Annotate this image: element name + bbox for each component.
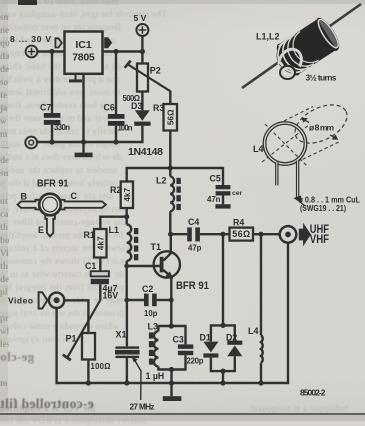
- transistor T1 BFR91: [154, 251, 180, 278]
- junction P1 bottom: [86, 380, 91, 385]
- junction D-block top: [220, 323, 225, 328]
- capacitor C3: [178, 325, 193, 371]
- wire C6 to ground rail: [115, 126, 117, 142]
- inductor L1: [127, 225, 139, 261]
- svg-text:X1: X1: [116, 330, 127, 340]
- svg-text:L2: L2: [156, 176, 167, 186]
- svg-text:C6: C6: [104, 103, 115, 113]
- wire video to P1: [64, 300, 88, 333]
- IC U1: IC1 7805 voltage regulator: [65, 32, 103, 74]
- terminal 5V: [136, 24, 148, 36]
- junction tank bottom: [169, 367, 174, 372]
- diode D2: [227, 324, 242, 372]
- capacitor C2: [127, 294, 172, 307]
- svg-text:C2: C2: [142, 284, 153, 294]
- junction D-block bottom rail: [220, 380, 225, 385]
- input arrow (open) video: [39, 292, 48, 308]
- wire rail corner down to R2: [125, 167, 127, 182]
- junction C6 ground: [113, 139, 118, 144]
- ground symbol upper: [75, 142, 93, 157]
- wire D-block feed: [222, 234, 224, 325]
- inductor L2: [170, 177, 180, 212]
- svg-text:L4: L4: [253, 144, 264, 154]
- svg-text:C5: C5: [210, 174, 221, 184]
- svg-text:E: E: [38, 225, 44, 235]
- svg-text:L4: L4: [248, 326, 259, 336]
- svg-text:8 ... 30 V: 8 ... 30 V: [10, 34, 51, 44]
- wire L2 bottom to collector node: [169, 211, 171, 234]
- dark rule near bottom of page: [0, 413, 365, 415]
- wire C7 to ground rail: [51, 125, 53, 142]
- wire D3 to ground rail corner: [141, 126, 143, 143]
- crystal X1: [115, 346, 140, 358]
- wire ground rail: [37, 141, 143, 143]
- wire R2 bottom to base node: [125, 208, 127, 225]
- resistor R3: [164, 104, 178, 131]
- wire C7 branch upper: [51, 52, 53, 114]
- junction collector/L2/C4: [168, 232, 173, 237]
- wire R4 to output terminal: [253, 233, 280, 235]
- svg-text:100n: 100n: [118, 124, 133, 133]
- junction X1 bottom: [124, 380, 129, 385]
- potentiometer P1 100R preset: [63, 300, 101, 360]
- wire video shield down: [55, 308, 57, 384]
- junction C7 ground: [49, 139, 54, 144]
- wire C1 down to P1 wiper: [99, 284, 101, 300]
- svg-text:D3: D3: [131, 101, 142, 111]
- left edge cut-off text column: [0, 0, 9, 421]
- terminal video input: [49, 293, 64, 308]
- wire D-block bottom rail: [211, 370, 235, 372]
- svg-text:Video: Video: [8, 296, 33, 306]
- svg-text:P1: P1: [66, 334, 77, 344]
- svg-text:56Ω: 56Ω: [232, 229, 250, 239]
- wire collector up: [170, 234, 172, 254]
- wire base node down to X1: [126, 300, 128, 346]
- svg-text:4k7: 4k7: [96, 236, 105, 250]
- inductor L3: [149, 325, 159, 371]
- input arrow (open) of IC1: [55, 38, 61, 47]
- junction C2 left: [124, 298, 129, 303]
- junction D-block bottom: [220, 369, 225, 374]
- resistor R2: [121, 182, 133, 209]
- junction C7 tap: [49, 49, 54, 54]
- svg-text:D2: D2: [226, 332, 237, 342]
- svg-text:16V: 16V: [103, 291, 119, 301]
- svg-text:5 V: 5 V: [134, 13, 147, 23]
- capacitor C5 decoupling: [215, 167, 230, 209]
- resistor R4: [230, 228, 254, 241]
- svg-text:220p: 220p: [187, 357, 204, 366]
- svg-text:cer: cer: [232, 190, 243, 197]
- wire X1 to bottom rail: [126, 358, 128, 383]
- output arrow (filled) of IC1: [105, 38, 112, 48]
- wire P1 to bottom rail: [87, 360, 89, 384]
- wire bottom rail: [56, 382, 290, 384]
- wire D-block top rail: [211, 324, 235, 326]
- svg-text:4k7: 4k7: [123, 188, 132, 202]
- terminal +8...30V input: [26, 46, 38, 58]
- junction 5V node: [140, 49, 145, 54]
- junction tank bottom rail: [169, 380, 174, 385]
- capacitor C4: [187, 227, 200, 241]
- capacitor C6: [108, 114, 125, 126]
- wire 5V terminal down to P2: [141, 36, 143, 64]
- svg-text:R1: R1: [84, 230, 95, 240]
- svg-text:BFR 91: BFR 91: [37, 178, 69, 190]
- wire emitter down: [170, 278, 172, 327]
- junction C6 tap: [113, 49, 118, 54]
- coil L1,L2 winding illustration: [242, 4, 361, 88]
- capacitor C7: [44, 113, 61, 125]
- junction L4 bottom: [258, 380, 263, 385]
- wire to R1: [100, 217, 126, 229]
- svg-text:56Ω: 56Ω: [166, 109, 175, 125]
- svg-text:330n: 330n: [54, 123, 70, 132]
- wire emitter node to tank: [169, 323, 174, 328]
- transistor BFR91 pinout drawing: [18, 194, 106, 237]
- svg-text:D1: D1: [200, 332, 211, 342]
- potentiometer P2 500R preset: [125, 61, 171, 92]
- wire L1 bottom / base node: [125, 261, 127, 301]
- terminal UHF/VHF output: [280, 226, 297, 243]
- wire L2 top: [169, 168, 171, 177]
- output arrow (filled): [299, 223, 311, 247]
- wire R3 to HF rail: [169, 131, 171, 169]
- wire IC1 common down to ground rail: [82, 74, 84, 142]
- svg-text:IC1: IC1: [75, 39, 92, 51]
- svg-text:47n: 47n: [207, 195, 221, 204]
- svg-text:3½ turns: 3½ turns: [306, 73, 337, 83]
- svg-text:L1: L1: [109, 225, 120, 235]
- svg-text:ø 8 mm: ø 8 mm: [309, 123, 334, 133]
- wire collector node to C4: [171, 233, 188, 235]
- svg-text:L1,L2: L1,L2: [256, 32, 280, 42]
- junction C5/D-block feed: [220, 232, 225, 237]
- wire D-block to bottom rail: [222, 371, 224, 383]
- svg-text:100Ω: 100Ω: [91, 362, 111, 371]
- svg-text:C7: C7: [40, 103, 51, 113]
- inductor L4 (schematic): [261, 234, 263, 383]
- junction IC1 ground: [81, 139, 86, 144]
- ground tab of IC1: [75, 74, 77, 80]
- diode D3: [134, 110, 150, 125]
- wire tank to bottom rail: [170, 370, 172, 384]
- wire tank bottom: [158, 368, 185, 370]
- svg-text:R3: R3: [153, 103, 164, 113]
- ground symbol bottom: [163, 383, 182, 401]
- junction emitter/C2: [169, 298, 174, 303]
- svg-text:B: B: [21, 192, 28, 202]
- wire tank top: [158, 325, 185, 327]
- svg-text:47p: 47p: [188, 244, 202, 253]
- svg-text:BFR 91: BFR 91: [176, 280, 209, 292]
- wire IC1 output to 5V node: [103, 50, 143, 52]
- wire output down: [287, 242, 289, 384]
- terminal 0V: [25, 137, 37, 149]
- svg-text:P2: P2: [150, 66, 161, 76]
- svg-text:1N4148: 1N4148: [128, 146, 163, 158]
- wire HF supply rail: [127, 167, 223, 169]
- wire P2 wiper to R3: [169, 91, 171, 105]
- svg-text:7805: 7805: [72, 52, 95, 64]
- black crop mark top-left: [18, 0, 37, 5]
- svg-text:T1: T1: [151, 242, 162, 252]
- capacitor C1 electrolytic: [91, 271, 109, 284]
- wire C6 branch upper: [115, 52, 117, 115]
- diode D1: [203, 324, 218, 372]
- junction R2/R1/L1: [124, 214, 129, 219]
- junction base node: [124, 264, 129, 269]
- resistor R1: [94, 229, 107, 258]
- junction L4 tap: [258, 232, 263, 237]
- wire P2 bottom to D3: [141, 92, 143, 111]
- svg-text:R2: R2: [110, 185, 121, 195]
- junction R3/L2 node: [168, 165, 173, 170]
- wire base: [127, 265, 160, 267]
- svg-text:L3: L3: [148, 322, 159, 332]
- wire C4 to R4: [200, 233, 230, 235]
- svg-text:VHF: VHF: [310, 234, 329, 246]
- wire input to IC1: [37, 50, 64, 52]
- svg-text:85002-2: 85002-2: [300, 388, 326, 398]
- svg-text:C: C: [71, 191, 78, 201]
- svg-text:10p: 10p: [144, 309, 158, 318]
- coil L4 winding illustration: [262, 97, 353, 206]
- svg-text:1 µH: 1 µH: [146, 371, 165, 381]
- svg-text:27 MHz: 27 MHz: [130, 403, 155, 412]
- svg-text:C4: C4: [188, 217, 199, 227]
- svg-text:C1: C1: [85, 261, 96, 271]
- wire R1 to C1: [99, 258, 101, 272]
- leader 27 MHz pointer: [132, 357, 141, 400]
- svg-text:(SWG19 . . 21): (SWG19 . . 21): [300, 204, 346, 213]
- svg-text:R4: R4: [233, 218, 244, 228]
- svg-text:C3: C3: [173, 335, 184, 345]
